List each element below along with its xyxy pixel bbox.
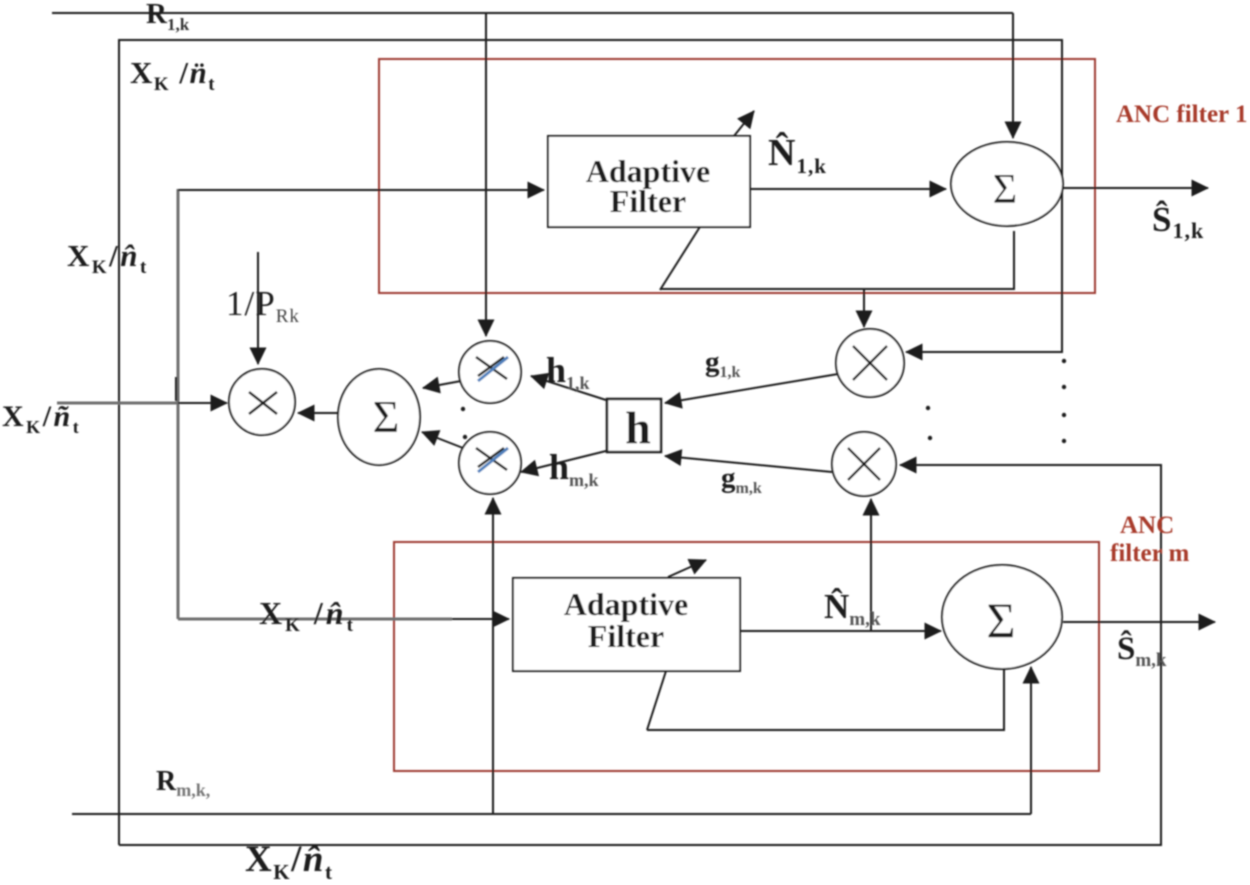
multiplier M5 (gm,k) xyxy=(832,432,896,496)
svg-text:Σ: Σ xyxy=(993,167,1017,213)
wire into multiplier M1 xyxy=(178,402,227,404)
node junction tick xyxy=(175,377,177,401)
sum Um xyxy=(942,565,1062,669)
sum U1 xyxy=(951,142,1063,226)
node dots column right xyxy=(1062,359,1066,443)
wire R1,k drop into multiplier M2 xyxy=(485,13,487,336)
svg-text:Σ: Σ xyxy=(373,391,400,442)
wire multiplier M5 to h box xyxy=(665,456,832,472)
wire adaptive filter Fm to sum Um xyxy=(740,630,941,632)
multiplier M4 (g1,k) xyxy=(836,329,904,397)
wire Rm,k bottom line xyxy=(72,813,1031,815)
gray bus vertical Xk xyxy=(177,189,180,619)
wire feedback diagonal into Fm xyxy=(647,671,666,730)
wire multiplier M4 to h box xyxy=(665,374,838,403)
svg-text:ANC: ANC xyxy=(1120,512,1174,539)
node dots column middle xyxy=(926,406,932,440)
wire multiplier M2 to sum U2 xyxy=(423,381,461,388)
svg-text:Σ: Σ xyxy=(986,592,1015,648)
sum U2 xyxy=(338,369,420,465)
wire h box to multiplier M3 xyxy=(521,451,606,472)
wire Nm,k rise into multiplier M5 xyxy=(870,499,872,631)
wire h box to multiplier M2 xyxy=(531,376,606,400)
svg-text:h: h xyxy=(625,402,651,453)
svg-text:ANC filter 1: ANC filter 1 xyxy=(1116,101,1247,128)
wire sum Um feedback xyxy=(647,669,1004,730)
ANC filter 1 red box xyxy=(379,59,1095,293)
svg-text:Adaptive: Adaptive xyxy=(564,586,688,622)
wire F1 adaptation arrow xyxy=(734,111,754,136)
svg-text:Filter: Filter xyxy=(610,183,686,219)
gray bus input Xk horizontal xyxy=(57,402,178,405)
wire R1,k top line xyxy=(52,12,1013,14)
gray wire toward adaptive filter Fm xyxy=(178,618,452,621)
svg-text:XK /n̈t: XK /n̈t xyxy=(130,55,216,95)
wire outer loop bottom into multiplier M5 xyxy=(119,465,1161,845)
wire Fm adaptation arrow xyxy=(668,560,706,577)
wire sum Um output xyxy=(1063,621,1215,623)
svg-text:filter m: filter m xyxy=(1110,540,1190,567)
wire Rm,k rise into multiplier M3 xyxy=(492,498,494,814)
wire sum U2 to multiplier M1 xyxy=(298,412,338,414)
wire feedback diagonal into F1 xyxy=(660,222,703,290)
svg-text:Filter: Filter xyxy=(588,618,664,654)
multiplier M3 (hm,k) xyxy=(459,432,521,494)
svg-text:XK /n̂t: XK /n̂t xyxy=(259,595,356,636)
wire into adaptive filter F1 xyxy=(178,189,544,191)
wire sum U1 feedback xyxy=(660,231,1014,289)
wire arrow into adaptive filter Fm xyxy=(452,618,509,620)
wire multiplier M3 to sum U2 xyxy=(422,432,463,448)
wire sum U1 output xyxy=(1062,187,1208,189)
wire outer loop top into multiplier M4 xyxy=(119,40,1062,845)
adaptive filter F1 box xyxy=(548,136,750,227)
wire 1/P_Rk drop into multiplier M1 xyxy=(257,252,259,364)
wire Rm,k rise into sum Um xyxy=(1030,667,1032,814)
adaptive filter Fm box xyxy=(513,578,740,671)
node dots column left xyxy=(461,407,467,439)
h box xyxy=(607,399,661,453)
wire R1,k drop into sum U1 xyxy=(1012,13,1014,138)
wire adaptive filter F1 to sum U1 xyxy=(750,188,946,190)
ANC filter m red box xyxy=(394,542,1099,771)
multiplier M1 (1/P) xyxy=(229,369,295,435)
multiplier M2 (h1,k) xyxy=(459,341,521,403)
wire feedback drop into multiplier M4 xyxy=(863,289,865,327)
